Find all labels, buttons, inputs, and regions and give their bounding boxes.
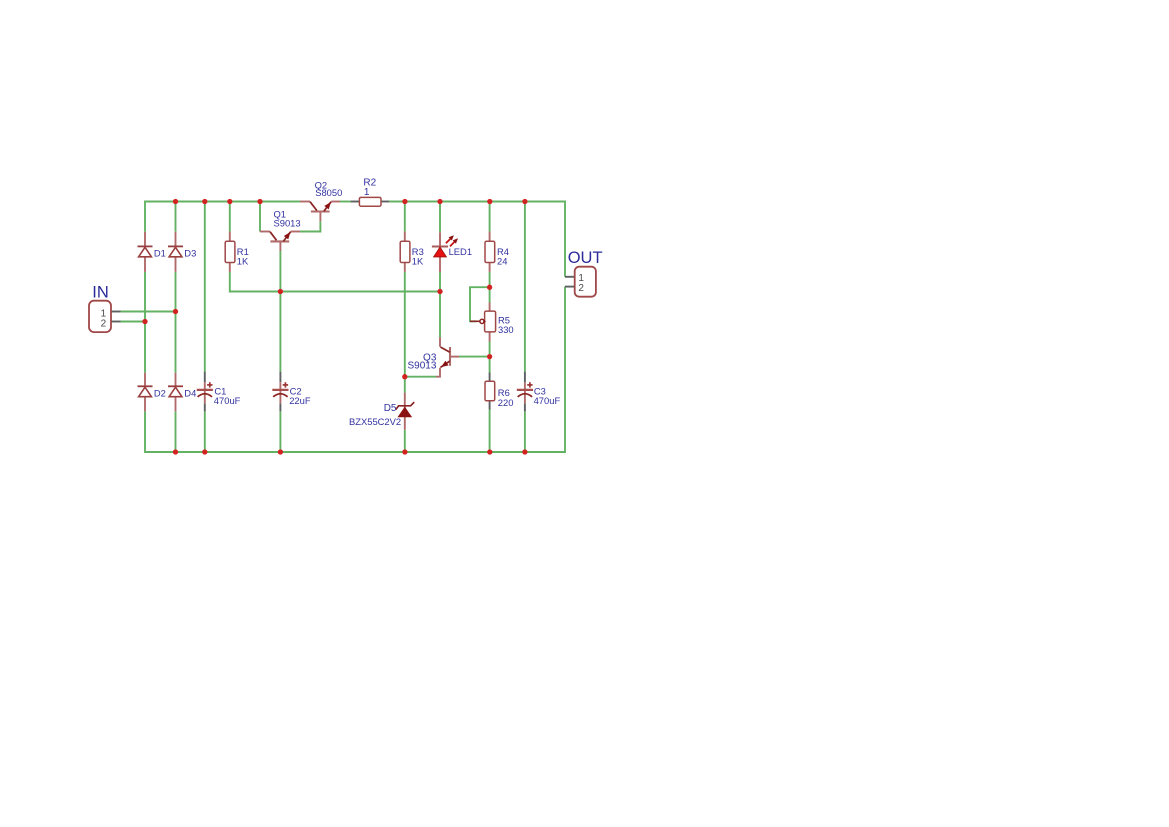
svg-text:D1: D1 xyxy=(154,248,166,259)
svg-text:D4: D4 xyxy=(184,387,196,398)
svg-text:D5: D5 xyxy=(384,403,397,414)
svg-text:S8050: S8050 xyxy=(315,187,342,198)
svg-text:1K: 1K xyxy=(237,256,249,267)
svg-text:2: 2 xyxy=(101,318,107,329)
svg-text:24: 24 xyxy=(497,256,507,267)
svg-text:1: 1 xyxy=(364,187,370,198)
svg-text:220: 220 xyxy=(498,397,514,408)
svg-text:D2: D2 xyxy=(154,387,166,398)
svg-text:330: 330 xyxy=(498,324,514,335)
svg-text:470uF: 470uF xyxy=(534,395,561,406)
svg-text:22uF: 22uF xyxy=(289,395,311,406)
svg-text:BZX55C2V2: BZX55C2V2 xyxy=(349,416,401,427)
svg-text:2: 2 xyxy=(578,283,584,294)
svg-text:470uF: 470uF xyxy=(214,395,241,406)
svg-text:1K: 1K xyxy=(412,256,424,267)
svg-text:IN: IN xyxy=(92,283,109,301)
svg-text:S9013: S9013 xyxy=(407,361,436,372)
svg-text:S9013: S9013 xyxy=(274,218,301,229)
svg-text:LED1: LED1 xyxy=(449,246,472,257)
svg-text:D3: D3 xyxy=(184,248,196,259)
svg-text:OUT: OUT xyxy=(568,249,603,267)
